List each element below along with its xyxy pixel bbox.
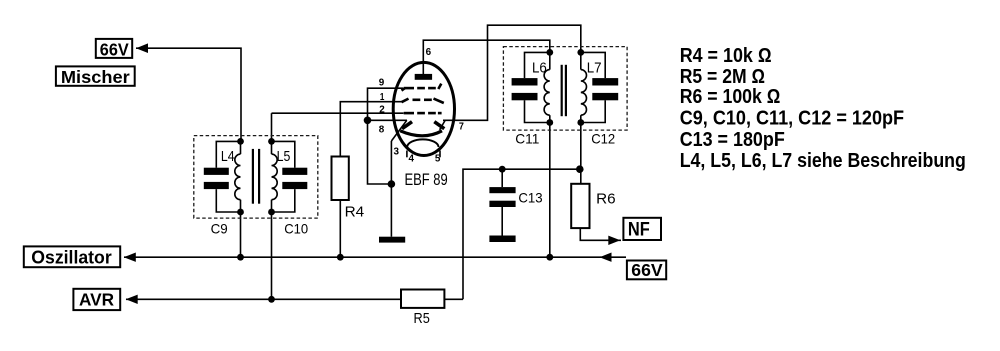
wire L7 bottom to R6: [580, 123, 582, 184]
tube heater dome: [407, 139, 438, 147]
terminal box Mischer: [56, 66, 135, 85]
tube heater pin5 stub: [439, 151, 441, 158]
wire pin6 anode to L6 top: [423, 40, 550, 74]
terminal box Oszillator: [24, 246, 120, 267]
node L5 bottom: [268, 209, 275, 216]
arrow to Oszillator: [124, 253, 136, 262]
svg-text:R6 = 100k Ω: R6 = 100k Ω: [680, 86, 781, 108]
wire R5 right link: [444, 298, 463, 300]
inductor L7: [581, 52, 587, 122]
svg-text:C13: C13: [518, 190, 542, 206]
wire C13 bottom lead to ground: [501, 207, 503, 236]
svg-text:Mischer: Mischer: [61, 67, 130, 87]
wire grid3 pin9 to cathode junction: [368, 88, 404, 120]
node L7 top: [577, 49, 584, 56]
node rail-R4: [337, 254, 344, 261]
svg-text:4: 4: [409, 154, 415, 165]
wire grid2 pin2: [272, 112, 404, 114]
arrow from 66V bottom: [600, 253, 612, 262]
svg-text:NF: NF: [628, 219, 650, 241]
svg-text:C10: C10: [284, 221, 308, 237]
wire 66V-top feed horizontal: [136, 48, 241, 141]
svg-text:R4: R4: [345, 204, 365, 221]
IF transformer L6/L7 dashed enclosure: [503, 47, 627, 131]
svg-text:R5 = 2M Ω: R5 = 2M Ω: [680, 66, 765, 88]
svg-text:5: 5: [435, 154, 441, 165]
svg-text:C13 = 180pF: C13 = 180pF: [680, 129, 785, 151]
node L6 top: [546, 49, 553, 56]
svg-text:EBF 89: EBF 89: [405, 170, 448, 189]
svg-text:1: 1: [380, 92, 385, 103]
arrow to 66V top: [136, 43, 148, 53]
ground bar cathode: [379, 237, 405, 243]
svg-text:6: 6: [426, 47, 432, 58]
svg-text:R6: R6: [596, 191, 616, 208]
tube anode plate: [415, 74, 432, 80]
capacitor C9: [204, 141, 241, 212]
svg-text:C9: C9: [211, 221, 228, 237]
wire C13 top lead: [501, 169, 503, 187]
tube diode plate right: [434, 122, 444, 129]
node L6 bottom: [546, 119, 553, 126]
node cathode-g3 junction pin8: [364, 117, 372, 125]
svg-text:7: 7: [459, 121, 464, 132]
tube heater pin4 stub: [406, 151, 408, 158]
wire rail to 66V-bottom box: [600, 256, 626, 258]
svg-text:L7: L7: [587, 61, 602, 77]
arrow to NF: [608, 236, 620, 245]
wire L5 top riser from grid2: [271, 113, 273, 141]
svg-text:R4 = 10k Ω: R4 = 10k Ω: [680, 45, 772, 67]
capacitor C12: [581, 52, 618, 122]
tube grid g2 row: [404, 112, 442, 115]
wire L4 riser to rail: [240, 212, 242, 257]
wire oszillator rail: [124, 256, 601, 258]
ground bar C13: [489, 236, 515, 243]
wire R4 bottom to rail: [339, 200, 341, 257]
IF transformer L4/L5 dashed enclosure: [194, 136, 318, 219]
svg-text:66V: 66V: [631, 260, 663, 280]
svg-text:AVR: AVR: [79, 290, 114, 310]
resistor R4: [332, 157, 349, 201]
tube diode plate left: [402, 122, 412, 129]
wire grid1 pin1: [340, 102, 402, 157]
svg-text:3: 3: [394, 147, 400, 158]
wire L6 riser to rail: [549, 123, 551, 258]
wire R6 bottom to NF: [580, 228, 621, 240]
node rail-L6: [546, 254, 553, 261]
wire pin8 cathode: [368, 119, 408, 121]
svg-text:L6: L6: [532, 61, 547, 77]
terminal box AVR: [73, 289, 120, 310]
node L4 bottom: [237, 209, 244, 216]
terminal box NF: [623, 218, 661, 240]
resistor R6: [571, 184, 589, 228]
node C13 top: [499, 166, 506, 173]
svg-text:L4, L5, L6, L7 siehe Beschreib: L4, L5, L6, L7 siehe Beschreibung: [680, 150, 966, 172]
tube EBF89 envelope U1: [393, 62, 454, 155]
svg-text:C11: C11: [515, 131, 539, 147]
inductor L6: [544, 52, 550, 122]
tube grid g3 row: [402, 84, 442, 91]
wire pin3 to ground: [390, 141, 392, 237]
tube cathode lead right to pin7: [440, 121, 445, 130]
resistor R5: [401, 290, 444, 308]
inductor L4: [235, 141, 241, 212]
arrow to AVR: [126, 295, 138, 304]
wire cathode junction down to pin3 node: [368, 120, 392, 184]
wire L5 riser to AVR: [271, 212, 273, 299]
svg-text:2: 2: [379, 105, 385, 116]
tube grid g1 row: [402, 99, 444, 103]
svg-text:8: 8: [379, 125, 385, 136]
svg-text:R5: R5: [414, 311, 430, 327]
wire detector node horizontal: [463, 169, 580, 299]
tube cathode arc: [400, 131, 442, 136]
transformer core L6/L7: [562, 65, 566, 116]
node L4 top: [237, 138, 244, 145]
svg-text:C12: C12: [591, 131, 615, 147]
terminal box 66V bottom: [627, 261, 666, 280]
svg-text:Oszillator: Oszillator: [31, 247, 111, 268]
svg-text:C9, C10, C11, C12 = 120pF: C9, C10, C11, C12 = 120pF: [680, 108, 904, 130]
svg-text:66V: 66V: [100, 39, 129, 59]
inductor L5: [272, 141, 278, 212]
node AVR-L5: [268, 296, 275, 303]
capacitor C10: [272, 141, 308, 212]
terminal box 66V top: [96, 39, 132, 58]
svg-text:L5: L5: [277, 149, 291, 165]
transformer core L4/L5: [253, 149, 259, 204]
node L7 bottom: [577, 119, 584, 126]
wire AVR line: [126, 298, 401, 300]
wire pin7 to L7 top: [443, 25, 581, 120]
node L5 top: [268, 138, 275, 145]
tube cathode lead to pin3: [391, 120, 406, 141]
svg-text:L4: L4: [221, 149, 235, 165]
capacitor C13: [489, 187, 515, 207]
node R6 top: [576, 165, 584, 173]
node rail-L4: [237, 254, 244, 261]
node pin3 cathode ground junction: [388, 180, 396, 188]
svg-text:9: 9: [379, 77, 385, 88]
capacitor C11: [512, 52, 550, 122]
